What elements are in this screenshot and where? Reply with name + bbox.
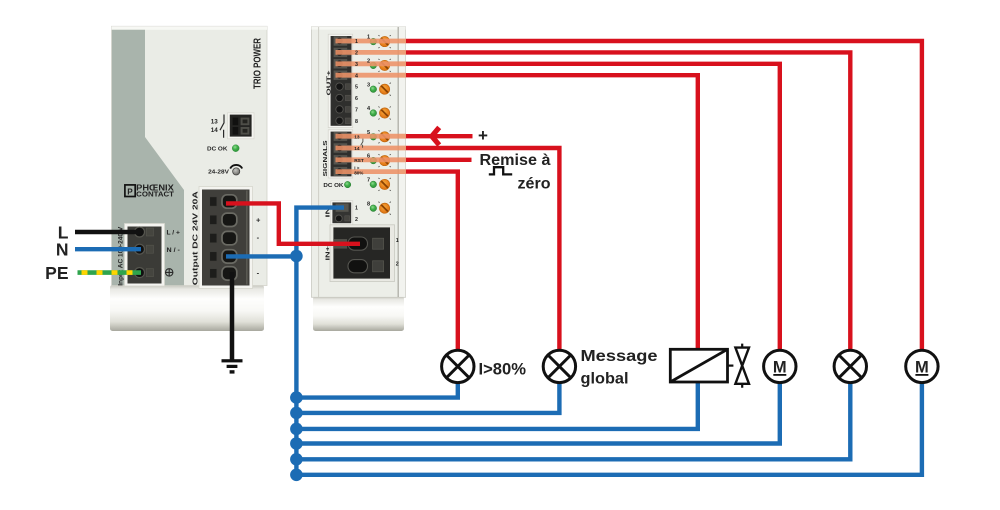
node bus 6: [290, 469, 303, 482]
svg-text:2: 2: [355, 51, 358, 57]
svg-text:1: 1: [396, 238, 399, 244]
IN+ power terminal block: [330, 225, 395, 282]
relay contact symbol: [220, 115, 224, 138]
svg-text:1: 1: [355, 206, 358, 212]
salmon wire OUT+ 2: [336, 50, 407, 55]
lamp H2: [543, 350, 575, 382]
lamp H3: [834, 350, 866, 382]
output terminal 3 (-): [210, 234, 217, 243]
channel 5 LED: [370, 134, 377, 141]
svg-text:13: 13: [354, 134, 360, 140]
svg-text:14: 14: [354, 146, 360, 152]
svg-text:M: M: [915, 358, 929, 376]
wire bus to lamp H2 (blue): [296, 381, 559, 413]
wire OUT1 to motor M2 (red): [406, 41, 922, 352]
wire ground (black) from output -: [230, 272, 235, 360]
svg-text:5: 5: [367, 130, 370, 136]
solenoid Y1: [670, 349, 727, 382]
svg-text:M: M: [773, 358, 787, 376]
svg-text:2: 2: [367, 59, 370, 65]
OUT+ terminal block: [328, 34, 353, 127]
wire bus to motor M2 (blue): [296, 381, 922, 475]
svg-text:7: 7: [355, 108, 358, 114]
psu top band: [112, 26, 268, 30]
svg-text:I>80%: I>80%: [479, 359, 527, 378]
motor M2: [906, 350, 938, 382]
svg-text:6: 6: [367, 154, 370, 160]
svg-text:CONTACT: CONTACT: [136, 190, 174, 199]
input terminal PE: [135, 268, 145, 278]
salmon wire OUT+ 1: [336, 39, 407, 44]
wire bus to motor M1 (blue): [296, 381, 779, 444]
output terminal 1 (+): [210, 197, 217, 206]
psu left dark band: [112, 30, 184, 285]
svg-text:RST: RST: [354, 158, 364, 164]
SIGNALS terminal block: [328, 130, 353, 178]
svg-text:3: 3: [355, 62, 358, 68]
earth symbol on psu: [166, 269, 173, 276]
wire OUT3 to motor M1 (red): [406, 64, 780, 352]
wire OUT4 to solenoid Y1 (red): [406, 75, 698, 351]
OUT+ terminal 1: [334, 36, 348, 45]
channel 1 potentiometer: [379, 35, 391, 48]
ecb body: [312, 27, 406, 298]
dash to valve: [728, 365, 734, 367]
wire minus bus vertical (blue): [294, 256, 298, 475]
output terminal 4 (-): [210, 252, 217, 261]
wire psu- to junction (blue): [226, 254, 294, 258]
salmon wire SIGNALS 13: [336, 134, 407, 139]
channel 2 LED: [370, 62, 377, 69]
psu bottom skirt: [110, 285, 264, 331]
OUT+ terminal 8: [336, 117, 343, 124]
salmon wire SIGNALS 14: [336, 146, 407, 151]
wire junction to IN (blue): [296, 208, 344, 258]
svg-text:4: 4: [355, 73, 358, 79]
wire psu+ to IN+ (red): [226, 203, 360, 243]
ecb bottom skirt: [313, 297, 404, 332]
svg-text:3: 3: [367, 82, 370, 88]
svg-text:1: 1: [367, 35, 370, 41]
relay contact terminal 13/14: [228, 113, 255, 139]
LED DC OK: [232, 145, 239, 152]
svg-text:P: P: [127, 187, 133, 196]
node bus 4: [290, 437, 303, 450]
channel 4 potentiometer: [379, 107, 391, 120]
svg-text:TRIO POWER: TRIO POWER: [251, 38, 263, 89]
svg-text:14: 14: [211, 127, 219, 134]
node bus 1: [290, 391, 303, 404]
svg-text:global: global: [581, 370, 629, 387]
circuit breaker U2 (multichannel ECB): [312, 27, 406, 331]
channel 7 LED: [370, 181, 377, 188]
LED DC OK ecb: [344, 181, 350, 187]
node bus 3: [290, 423, 303, 436]
output terminal 5 (-): [210, 269, 217, 278]
svg-text:Message: Message: [581, 348, 658, 365]
node bus 5: [290, 453, 303, 466]
channel 3 potentiometer: [379, 83, 391, 96]
svg-text:2: 2: [355, 217, 358, 223]
channel 1 LED: [370, 38, 377, 45]
svg-text:13: 13: [211, 119, 219, 126]
logo PHOENIX CONTACT: [125, 184, 175, 199]
input terminal block X1: [125, 224, 165, 287]
wire SIGNALS I>80 to lamp H1 (red): [406, 172, 458, 352]
arrowhead plus feed: [432, 127, 439, 145]
channel 5 potentiometer: [379, 130, 391, 143]
svg-text:PE: PE: [45, 263, 68, 283]
valve symbol: [735, 344, 749, 388]
svg-text:IN+: IN+: [326, 245, 332, 260]
svg-text:N / -: N / -: [167, 247, 180, 254]
wire N input (blue): [75, 247, 141, 251]
svg-text:8: 8: [355, 119, 358, 125]
svg-text:DC OK: DC OK: [207, 146, 228, 152]
ecb top band: [312, 27, 406, 30]
svg-text:+: +: [478, 126, 488, 145]
svg-text:L / +: L / +: [167, 230, 181, 237]
channel 2 potentiometer: [379, 59, 391, 72]
svg-text:Remise à: Remise à: [480, 152, 551, 169]
channel 6 potentiometer: [379, 154, 391, 167]
wire SIGNALS 13 plus feed (red): [406, 134, 473, 138]
channel 7 potentiometer: [379, 178, 391, 191]
wire SIGNALS RST stub (red): [406, 158, 472, 162]
psu body: [112, 26, 268, 285]
wire PE input (green/yellow): [78, 270, 142, 275]
svg-text:OUT+: OUT+: [327, 69, 333, 95]
pulse symbol: [489, 167, 512, 174]
svg-text:SIGNALS: SIGNALS: [323, 140, 329, 176]
OUT+ terminal 4: [334, 71, 348, 80]
channel 4 LED: [370, 110, 377, 117]
channel 8 LED: [370, 205, 377, 212]
salmon wire SIGNALS RST: [336, 157, 407, 162]
svg-text:1: 1: [355, 39, 358, 45]
SIGNALS terminal RST: [334, 155, 348, 164]
lamp H1: [442, 350, 474, 382]
svg-text:7: 7: [367, 178, 370, 184]
OUT+ terminal 2: [334, 48, 348, 57]
input terminal N: [135, 244, 145, 254]
svg-text:N: N: [56, 240, 69, 260]
channel 8 potentiometer: [379, 202, 391, 215]
wire OUT2 to lamp H3 (red): [406, 52, 850, 352]
svg-text:DC OK: DC OK: [323, 183, 344, 189]
wire bus to solenoid Y1 (blue): [296, 381, 697, 429]
wire SIGNALS 14 to lamp H2 (red): [406, 148, 559, 352]
power supply U1 (TRIO POWER): [110, 26, 267, 331]
wire L input (black): [75, 230, 141, 235]
OUT+ terminal 3: [334, 59, 348, 68]
wire bus to lamp H1 (blue): [296, 381, 457, 398]
svg-text:6: 6: [355, 96, 358, 102]
contact symbol 13-14: [361, 139, 363, 148]
SIGNALS terminal I>80: [334, 167, 348, 176]
IN terminal block: [331, 201, 353, 225]
channel 6 LED: [370, 157, 377, 164]
node junction psu minus: [290, 250, 303, 263]
OUT+ terminal 6: [336, 94, 343, 101]
IN terminal 2: [335, 215, 342, 222]
potentiometer 24-28V: [233, 168, 240, 175]
output terminal 2 (+): [210, 215, 217, 224]
SIGNALS terminal 14: [334, 143, 348, 152]
channel 3 LED: [370, 86, 377, 93]
svg-text:zéro: zéro: [518, 175, 551, 192]
output terminal block X2: [199, 187, 253, 289]
salmon wire SIGNALS I>80: [336, 169, 407, 174]
salmon wire OUT+ 4: [336, 73, 407, 78]
ecb panel edge lines: [318, 27, 320, 297]
svg-text:5: 5: [355, 85, 358, 91]
svg-text:Output DC 24V 20A: Output DC 24V 20A: [192, 191, 199, 285]
node bus 2: [290, 407, 303, 420]
ground symbol: [222, 359, 243, 373]
svg-text:+: +: [256, 215, 261, 224]
motor M1: [764, 350, 796, 382]
svg-text:8: 8: [367, 201, 370, 207]
wire bus to lamp H3 (blue): [296, 381, 850, 459]
svg-text:2: 2: [396, 261, 399, 267]
svg-text:24-28V: 24-28V: [208, 169, 229, 175]
OUT+ terminal 5: [336, 83, 343, 90]
svg-text:80%: 80%: [354, 171, 363, 176]
svg-text:Input AC 100-240 V: Input AC 100-240 V: [117, 226, 124, 286]
OUT+ terminal 7: [336, 106, 343, 113]
input terminal L: [135, 227, 145, 237]
salmon wire OUT+ 3: [336, 61, 407, 66]
SIGNALS terminal 13: [334, 132, 348, 141]
